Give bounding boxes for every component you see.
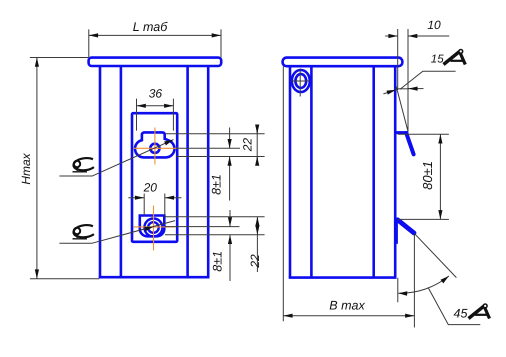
svg-text:22: 22 xyxy=(240,138,254,153)
bottom slot ring inner xyxy=(148,222,159,233)
body outer right wall (front view) xyxy=(207,66,210,277)
svg-text:20: 20 xyxy=(143,181,158,195)
body bottom edge (front view) xyxy=(99,276,210,279)
dimension B max extension lines xyxy=(283,66,414,327)
dimension 80±1 line xyxy=(439,134,441,219)
dimension 22 top extension lines xyxy=(166,134,265,157)
svg-text:8±1: 8±1 xyxy=(211,251,225,272)
dimension 20 line xyxy=(128,197,144,199)
dimension L tab extension lines xyxy=(89,29,221,57)
svg-text:80±1: 80±1 xyxy=(420,161,435,190)
dimension 8±1 top extension line xyxy=(176,147,240,149)
top slot circle xyxy=(150,144,159,153)
15 degree angle arrows xyxy=(383,90,396,94)
svg-text:8±1: 8±1 xyxy=(209,174,223,195)
bottom leader mid arrow xyxy=(144,227,153,232)
bottom slot ring outer xyxy=(144,219,162,237)
cap (side view top plate) xyxy=(283,58,403,67)
body inner wall left (front view) xyxy=(120,66,123,277)
label 45 A glyph xyxy=(469,304,490,319)
svg-text:Hmax: Hmax xyxy=(19,152,33,184)
pivot boss centerline cross xyxy=(291,69,310,97)
body outer left wall (front view) xyxy=(99,66,102,277)
dimension 36 line xyxy=(137,105,174,107)
45 arc end arrow right xyxy=(441,276,449,283)
centerline cross of bottom slot xyxy=(134,206,176,251)
svg-text:B max: B max xyxy=(329,299,365,313)
dimension 36 extension lines xyxy=(137,99,174,131)
leader of bottom slot symbol xyxy=(92,221,175,244)
15 degree leader xyxy=(400,71,456,89)
shelf of bottom slot symbol xyxy=(59,242,92,244)
svg-text:45: 45 xyxy=(454,307,468,321)
label 15 A glyph xyxy=(444,50,466,65)
45 degree arc xyxy=(398,276,449,293)
dimension 22 top line xyxy=(256,127,258,163)
dimension L tab line xyxy=(89,34,221,36)
dimension H max line xyxy=(36,58,38,279)
flange (front view top plate) xyxy=(89,58,222,66)
svg-text:L таб: L таб xyxy=(133,20,168,34)
dimension 8±1 bottom line xyxy=(229,210,231,227)
dimension 22 bottom line xyxy=(256,217,258,235)
section symbol bottom xyxy=(73,224,95,239)
45 degree vertical extension xyxy=(397,278,399,303)
inner panel rectangle xyxy=(132,113,177,242)
leader of top slot symbol xyxy=(92,140,173,176)
45 degree leader xyxy=(428,288,480,325)
dimension 8±1 top line xyxy=(229,128,231,149)
section symbol top xyxy=(73,157,95,172)
dimension 8±1 bottom extension line xyxy=(165,226,240,228)
svg-text:10: 10 xyxy=(427,18,441,32)
45 degree slant construction line xyxy=(414,233,456,277)
svg-text:15: 15 xyxy=(431,53,444,65)
inner wall B (side view) xyxy=(372,66,375,277)
dimension 80±1 extension lines xyxy=(398,134,449,219)
body inner wall right (front view) xyxy=(186,66,189,277)
body left edge (side view) xyxy=(289,66,292,277)
dimension 10 line xyxy=(385,35,398,37)
pivot boss outer ellipse xyxy=(292,70,310,92)
body bottom edge (side view) xyxy=(289,276,397,279)
dimension 22 bottom extension lines xyxy=(164,217,264,235)
pivot boss inner ellipse xyxy=(295,74,306,88)
top latch flap xyxy=(406,133,413,154)
dimension 20 extension lines xyxy=(144,194,165,216)
body right edge (side view) xyxy=(394,66,397,277)
top latch arm xyxy=(395,131,408,134)
dimension 10 extension lines xyxy=(398,29,408,131)
bottom latch flap xyxy=(398,220,415,233)
45 arc end arrow left xyxy=(398,291,407,296)
dimension H max extension lines xyxy=(30,58,99,279)
inner wall A (side view) xyxy=(310,66,313,277)
15 degree slant construction line xyxy=(396,86,408,131)
dimension B max line xyxy=(283,315,414,317)
centerline cross of top slot xyxy=(134,128,179,165)
bottom slot outline xyxy=(140,216,165,237)
svg-text:36: 36 xyxy=(149,87,163,101)
bottom latch wall step xyxy=(396,221,398,244)
top keyhole slot outline xyxy=(135,132,175,157)
shelf of top slot symbol xyxy=(59,175,92,177)
svg-text:22: 22 xyxy=(248,254,262,269)
